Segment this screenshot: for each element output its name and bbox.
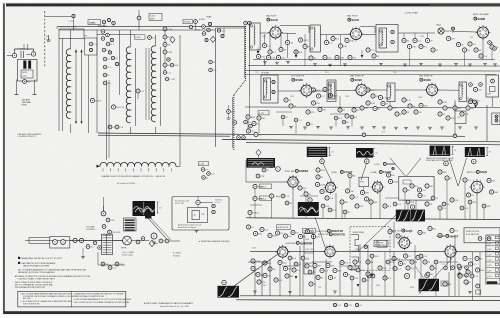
bus mid (y107) (245, 106, 500, 109)
capacitor C161 (136, 237, 145, 244)
wire sync drops (250, 187, 293, 218)
footnote item 2 (21, 300, 73, 305)
speaker symbol SP1 (121, 236, 131, 249)
footnote item 4 (74, 298, 132, 301)
resistor left col fill (163, 63, 179, 74)
pots on top rail (102, 18, 115, 26)
shielded lead x234 (233, 95, 234, 150)
dim W2 (373, 149, 379, 157)
wire yoke verticals (59, 39, 63, 132)
capacitor C44 (217, 29, 225, 38)
ground misc fill (81, 231, 198, 259)
wire top rail y26 (57, 27, 245, 29)
wire coil3 core (146, 47, 161, 126)
label horiz osc (317, 229, 344, 233)
wire row1 feeds (265, 48, 465, 66)
wire agc drops (248, 95, 259, 133)
label L142 box (135, 35, 146, 39)
resistor R41 (262, 40, 294, 54)
tube V5 6AW8 (476, 25, 491, 40)
bus segment y74 labels (255, 72, 397, 74)
capacitor C65 (456, 42, 476, 52)
capacitor C52 (298, 36, 354, 48)
wire audio box feed (197, 197, 199, 208)
wire extra audio verticals (262, 262, 340, 296)
ground extra bottom (253, 291, 472, 294)
note para 2 (15, 275, 91, 281)
resistor filler row2 (338, 106, 474, 118)
capacitor C131 (315, 168, 328, 194)
bus bottom double upper (y296) (240, 295, 500, 298)
callout circle 2 (365, 158, 370, 164)
wire sync horizontals (250, 196, 399, 205)
inductor L8 cluster (199, 162, 216, 180)
wire v5 links (398, 30, 478, 33)
waveform photo W7a (396, 210, 410, 222)
capacitor C132 (345, 173, 359, 199)
ground arrow bottom3 (427, 284, 430, 287)
ground G2 (313, 64, 347, 67)
dim W1 (329, 148, 335, 156)
label V6 1st video IF (291, 76, 305, 83)
label yoke fill (60, 27, 88, 38)
box audio detector circuit (172, 197, 229, 231)
box horiz freq dashed (350, 227, 390, 270)
resistor extra audio col (257, 264, 317, 286)
ground G5 (360, 127, 386, 130)
arrow coil1 b (80, 50, 82, 53)
diamond test point D1 (170, 37, 175, 43)
tube V8 3rd video (425, 83, 440, 98)
label audio output (286, 241, 313, 245)
wire focus drop (196, 24, 201, 31)
coil L2 horiz deflection (126, 30, 130, 133)
resistor extra vert col (366, 260, 392, 280)
box vert blanking (374, 240, 388, 247)
footnote col divider (71, 291, 73, 307)
node circles x247 (244, 21, 252, 95)
wire right cage vertical (486, 105, 488, 141)
wire mid verticals (405, 192, 416, 219)
bus left (y133) (98, 133, 465, 136)
capacitor C81 (360, 88, 389, 111)
diag line V1 left (390, 158, 406, 177)
waveform photo W2 (356, 148, 373, 158)
resistor filler sync1 (298, 186, 459, 210)
note para 3 (15, 282, 54, 289)
wire yoke top rail 2 (97, 34, 135, 36)
capacitor C122 (253, 196, 272, 201)
diag from photo9 (232, 253, 280, 288)
diag line V2 right (458, 158, 466, 186)
resistor R67 pair (108, 125, 124, 129)
wire right cage stub (454, 100, 456, 135)
wire row2 lower links (276, 112, 352, 134)
tube V3 6AU6 (268, 25, 283, 40)
wire bottom right drops (415, 235, 480, 300)
resistor R21 (137, 14, 162, 21)
arrow coil4 (97, 165, 100, 168)
callout circle 1 (320, 157, 325, 164)
capacitor C201 100mf (90, 98, 101, 102)
diamond D3 (256, 150, 261, 159)
tube V12 horiz out (469, 179, 485, 195)
resistor R23 (148, 36, 156, 40)
box video det (486, 75, 499, 97)
node circle 10 (404, 273, 409, 278)
box AGC keyed (399, 176, 434, 200)
capacitor in hfreq box (364, 240, 387, 248)
capacitor C152 (268, 229, 321, 238)
callout circle 5 (270, 167, 280, 172)
wire bottom more drops (290, 258, 459, 296)
diag audio line2 (151, 219, 171, 241)
wire mid right drops (447, 180, 477, 219)
resistor damper row (441, 264, 461, 270)
wire bottom left rail (25, 240, 102, 242)
wire coil2 core (135, 48, 137, 126)
node circle audio (151, 233, 157, 239)
wire sync more drops (323, 204, 484, 219)
diag audio line (149, 219, 169, 241)
capacitor AC caps (73, 238, 101, 249)
tube V7 2nd video (354, 83, 369, 98)
bus y251 right half (250, 250, 500, 253)
capacitor C31 (167, 58, 170, 61)
capacitor column x165 (163, 27, 173, 67)
capacitor C1 plus (46, 35, 51, 42)
diamond D2 (205, 36, 216, 42)
coil L1 vert deflection (66, 30, 70, 133)
label audio box bottom (178, 224, 202, 230)
label voltages row1 (262, 36, 474, 40)
transformer T5 (327, 80, 336, 102)
diag line callout1 (323, 164, 333, 185)
capacitor C181 (392, 254, 425, 271)
resistor bottom more (288, 254, 379, 282)
wire vert x106 (104, 80, 110, 211)
label V10 tint (332, 170, 353, 174)
terminal circle A (7, 52, 17, 58)
wire if drops (404, 33, 499, 60)
capacitor on y134 bus (362, 132, 457, 138)
inductor L9 between coils (136, 89, 144, 99)
waveform photo W4 (465, 147, 485, 157)
vert line x394 (393, 252, 395, 296)
resistor filler row1 (294, 48, 488, 60)
tube V11 (371, 180, 385, 194)
wire coil4 ticks (103, 168, 171, 171)
box agc label (258, 111, 269, 115)
wire v4 drops (305, 34, 341, 44)
note para 1 (18, 268, 87, 274)
label hv lead (117, 182, 135, 185)
label dashed lines note (101, 175, 166, 178)
sound trap cluster (199, 16, 212, 36)
wire bottom row links (70, 241, 180, 244)
waveform photo W8 (133, 201, 156, 216)
node 4.5mc out (469, 100, 477, 108)
waveform photo W7b (411, 210, 425, 222)
shielded lead x245 (244, 24, 245, 80)
wire yoke inner box (85, 38, 98, 55)
diag photo10 line (433, 259, 452, 279)
resistor R52 row (323, 55, 357, 59)
footnote item 5 (74, 301, 130, 304)
capacitor C91 (402, 98, 456, 120)
tube V15 damper (443, 244, 458, 259)
bus row boundary (y70.7) (246, 70, 500, 73)
footnote circles row (333, 303, 362, 307)
tube V17 vert out (397, 236, 412, 251)
tube V9 sync sep (286, 175, 300, 189)
bus long center 2 (y143) (246, 143, 500, 145)
tube V4 6AU6 (349, 27, 364, 42)
callout circle 11 (425, 273, 429, 277)
wire speaker legs (15, 80, 37, 95)
label vert out (467, 170, 488, 174)
callout circle 9 (222, 280, 226, 284)
transformer T6 (387, 83, 395, 102)
label V8 3rd video IF (419, 76, 433, 83)
resistor R7 cluster (102, 42, 114, 54)
wire top link2 (216, 28, 246, 34)
transformer T3 sound takeoff (376, 25, 398, 53)
page left border (3, 3, 4, 313)
label 4.5mc trap (405, 12, 418, 15)
wire yoke top rail (59, 29, 141, 31)
tube V14 vert osc (323, 244, 337, 258)
ground arrow a (257, 48, 260, 55)
label extra tiny 1 (252, 248, 434, 268)
ground arrow bottom2 (357, 284, 360, 287)
arrow coil1 bottom b (80, 121, 82, 124)
box phono jack (124, 218, 137, 231)
resistor in audio box (192, 211, 205, 220)
label V4 3rd pix IF (347, 16, 359, 23)
wire fuse top stubs (24, 44, 28, 50)
speaker magnet bar 1 (23, 61, 26, 69)
resistor width cluster (458, 266, 481, 294)
label V7 2nd video IF (350, 76, 364, 83)
capacitor C172 (313, 260, 362, 280)
node test x167 (165, 77, 176, 81)
ground arrow b (295, 50, 298, 58)
connector blob (145, 214, 152, 219)
capacitor yoke fill (89, 42, 118, 65)
waveform photo W5 video (247, 158, 276, 168)
resistor R12 pair (110, 38, 113, 41)
wire vert x88 (88, 55, 90, 133)
callout circle 7 (410, 205, 414, 209)
wire vol row (98, 252, 125, 265)
wire filler row2 drops (340, 96, 468, 108)
wire v3 plate top (280, 26, 309, 33)
wire sync mid drops (336, 178, 380, 219)
crystal diode X1 (436, 25, 444, 35)
box horiz output label (464, 228, 500, 243)
label damper (436, 234, 459, 238)
box phase det (359, 177, 369, 187)
label V3 2nd pix IF (266, 16, 278, 23)
label focus box (183, 20, 193, 24)
circle pair under hfreq (367, 274, 375, 278)
label denotes ground (199, 240, 231, 243)
ground G4 (289, 127, 333, 130)
resistor R66 (111, 105, 124, 109)
label box top left (88, 20, 101, 25)
label vert osc (318, 233, 345, 237)
ground arrow bottom1 (295, 276, 298, 279)
ground arrow c (361, 50, 364, 58)
node V16 junction (392, 167, 394, 169)
diag w6 to v14 (315, 217, 325, 248)
wire ac wires (29, 238, 83, 257)
bus bottom double lower (y300) (236, 299, 500, 302)
transformer T7 (459, 82, 467, 102)
bus left lower (y135) (98, 135, 230, 136)
callout circle 3 (444, 161, 449, 166)
wire v4 link (320, 34, 376, 36)
wire bottom bus drops (394, 222, 449, 296)
label voltages row2 (290, 96, 423, 99)
label horiz hold (277, 225, 291, 230)
wire coil4 right link (179, 134, 181, 166)
resistor R1 fuse (23, 80, 32, 84)
wire top link (140, 29, 216, 31)
waveform photo W1 (307, 147, 328, 157)
label home pwd (302, 228, 315, 233)
wire vert x120 (119, 30, 121, 95)
callout circle 4 (472, 159, 477, 164)
waveform photo W10 (419, 279, 439, 291)
diag line callout2 (361, 164, 366, 181)
wire coil1 core lines (76, 50, 82, 122)
coil L4 width coil (97, 162, 180, 166)
coil L3 horiz deflection (151, 35, 155, 134)
caption photofact (144, 302, 194, 308)
capacitor column x105 (103, 57, 111, 85)
ground filler row2 (346, 127, 478, 130)
dim W4 (486, 148, 492, 156)
capacitor C95 (469, 83, 483, 105)
label cap note left2 (18, 133, 43, 138)
arrow coil1 a (75, 50, 77, 53)
box sound disc left (455, 111, 466, 123)
wire bottom horizontals (248, 260, 458, 266)
bus B+ upper (y66) (248, 65, 500, 68)
label V9 sync sep (285, 169, 309, 173)
note bullet 1 (18, 257, 63, 260)
wire filler sync drops (306, 196, 440, 219)
capacitor sync more2 (321, 196, 491, 214)
label under W3 (426, 157, 455, 162)
step contour upper (351, 235, 358, 252)
label V16 sync inv (375, 162, 396, 166)
wire focus box top (15, 49, 34, 53)
diag w7 to hfreq (359, 214, 398, 251)
note bullet 2 (18, 262, 56, 268)
wire v4 plate top (360, 27, 375, 34)
diamond D4 (149, 240, 155, 246)
wire v3 drops (265, 34, 288, 59)
box deflection yoke outline (59, 29, 84, 39)
bus row2 top (y74) (245, 74, 496, 76)
box footnote table (18, 291, 126, 307)
capacitor inside AGC box (403, 180, 433, 198)
dashed divider line (44, 11, 46, 68)
waveform photo W6 (298, 202, 319, 216)
capacitor C141 (438, 170, 499, 197)
wire vol drop (106, 234, 108, 254)
wire row2 links (278, 90, 356, 93)
node L101 top (45, 14, 75, 30)
capacitor C182 (463, 256, 485, 274)
label V11 (371, 170, 392, 174)
box horiz coil tall (304, 234, 314, 275)
page top border bar (6, 3, 500, 6)
wire vert x215 (215, 28, 217, 147)
label V5 audio det (473, 13, 489, 21)
capacitor C151 (246, 225, 269, 236)
page bottom border bar (3, 311, 500, 314)
label vert out 6AQ5 (391, 229, 413, 233)
diag line V1 right (406, 158, 421, 177)
box tube chart (486, 235, 500, 284)
capacitor C101 (246, 115, 265, 137)
label to point (215, 199, 222, 205)
capacitor C113 (233, 120, 252, 139)
box damb small (441, 281, 448, 286)
label LAP thermal fuse (22, 99, 32, 107)
wire r21 (138, 10, 140, 30)
node circle in box (196, 200, 215, 213)
wire det drop (492, 97, 494, 107)
tube V6 6CB6 (299, 83, 314, 98)
capacitor C5 cluster (98, 25, 109, 41)
wire vert x97 (96, 30, 98, 133)
label audio box top (175, 200, 189, 206)
polarity caps (20, 49, 31, 59)
bus long center (y140) (222, 140, 500, 142)
resistor R42 row (256, 54, 285, 59)
capacitor C121 (253, 184, 272, 189)
capacitor C171 (251, 259, 293, 278)
dim W8 (157, 202, 163, 213)
capacitor row y232 right (388, 226, 459, 238)
waveform photo W3 (430, 146, 451, 156)
capacitor C112 (227, 105, 236, 120)
resistor R31 focus (189, 20, 197, 29)
wire sync in (246, 160, 288, 182)
ground G1 (263, 62, 290, 65)
dim W3 (451, 146, 457, 154)
capacitor C71 (284, 87, 338, 114)
speaker magnet bar 2 (28, 61, 31, 69)
tube V10 (324, 181, 338, 195)
box audio inner (188, 208, 208, 223)
transformer T4 (261, 73, 278, 104)
waveform photo W9 (218, 286, 240, 298)
transformer T1 (250, 23, 260, 50)
capacitor row2 lower band (281, 115, 357, 126)
label prefix output (122, 252, 181, 258)
capacitor C61 (402, 38, 433, 48)
resistor top right pair (488, 41, 497, 51)
resistor R71 vol row (101, 262, 124, 269)
capacitor C123 (248, 194, 281, 215)
bus sync bottom (y218) (246, 218, 500, 220)
